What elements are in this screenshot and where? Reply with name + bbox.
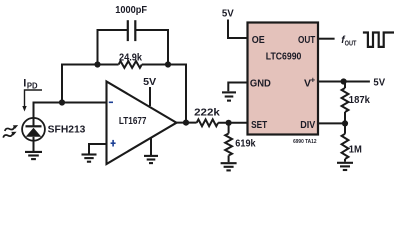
svg-text:I: I <box>23 77 26 89</box>
svg-text:619k: 619k <box>235 139 256 150</box>
svg-text:OUT: OUT <box>298 34 316 46</box>
svg-text:SET: SET <box>251 119 268 131</box>
svg-text:GND: GND <box>250 78 271 90</box>
svg-text:SFH213: SFH213 <box>48 125 86 136</box>
svg-text:222k: 222k <box>194 108 220 119</box>
svg-text:5V: 5V <box>143 77 156 88</box>
svg-text:187k: 187k <box>349 95 371 106</box>
svg-text:PD: PD <box>27 81 38 90</box>
svg-text:5V: 5V <box>373 77 385 88</box>
svg-text:+: + <box>311 76 316 85</box>
svg-text:6990 TA12: 6990 TA12 <box>293 139 317 145</box>
svg-text:1M: 1M <box>349 144 362 155</box>
svg-text:1000pF: 1000pF <box>115 5 147 16</box>
svg-text:24.9k: 24.9k <box>119 52 142 63</box>
svg-text:OE: OE <box>252 34 265 46</box>
svg-text:LT1677: LT1677 <box>119 116 147 127</box>
svg-text:OUT: OUT <box>345 38 357 47</box>
svg-text:DIV: DIV <box>300 119 315 131</box>
svg-text:LTC6990: LTC6990 <box>266 51 302 63</box>
svg-text:5V: 5V <box>222 9 234 20</box>
